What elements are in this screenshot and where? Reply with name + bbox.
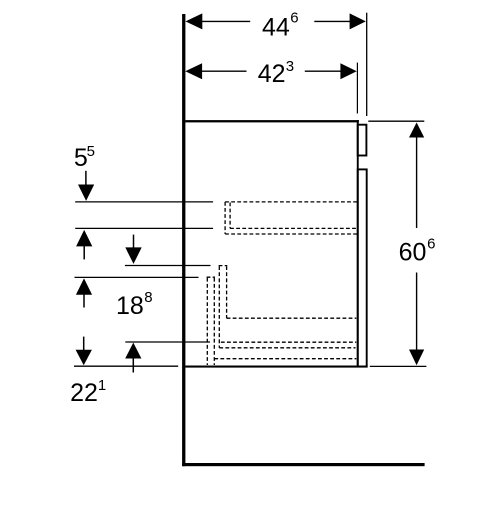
dashed drain pipe cap [207,276,215,278]
extension line 42.3 [356,63,358,114]
dimension 5.5 upper arrowhead [78,185,94,201]
dashed top drawer: top line [225,201,357,203]
dimension 60.6 bottom arrowhead [409,350,424,366]
svg-text:6: 6 [427,235,435,252]
dimension 60.6 lower stem [416,273,418,351]
dashed drain pipe right wall [213,278,215,365]
reference line L5 drawer bottom [125,341,210,343]
dimension 44.6 line right segment [314,20,350,22]
svg-text:6: 6 [290,9,298,26]
svg-text:42: 42 [258,60,286,88]
dimension 18.8 lower arrowhead [125,343,141,359]
dashed siphon right wall [226,266,228,318]
extension line 44.6 [366,13,368,116]
dimension 44.6 line left segment [201,20,250,22]
dimension 18.8 upper arrowhead [125,247,141,264]
dimension 60.6 upper stem [416,137,418,229]
dimension 42.3 left arrowhead [185,63,202,79]
cabinet top panel [185,120,359,122]
dashed top drawer: left inner wall [229,203,231,229]
dashed siphon left wall [218,266,220,348]
reference line L2 drawer inner bottom [75,227,213,229]
dimension 22.1 upper arrowhead [76,278,92,294]
svg-text:8: 8 [144,289,152,306]
svg-text:1: 1 [98,377,106,394]
svg-text:44: 44 [262,14,290,42]
reference line L1 drawer top [75,201,213,203]
dashed top drawer: inner bottom [230,227,357,229]
dimension 44.6 left arrowhead [186,13,203,29]
reference line L4 pipe top [75,276,199,278]
door front panel [358,169,367,366]
dimension 22.1 upper arrow stem [83,294,85,307]
dashed siphon cap [219,265,228,267]
cabinet carcass front edge [357,120,359,367]
dimension 18.8 lower arrow stem [132,358,134,373]
dimension 42.3 line right segment [305,70,342,72]
reference line 60.6 top [368,120,424,122]
reference line L3 siphon top [125,265,211,267]
dimension 42.3 right arrowhead [340,63,356,79]
dashed drawer outer bottom [214,358,356,360]
reference line L6 cabinet bottom [74,365,178,367]
dimension 60.6 top arrowhead [409,123,424,138]
svg-text:18: 18 [116,292,144,320]
svg-text:60: 60 [399,238,427,266]
top drawer front tab [358,125,367,156]
floor [182,463,424,466]
svg-text:22: 22 [70,379,98,407]
svg-text:5: 5 [87,143,95,160]
dimension 42.3 line left segment [201,70,247,72]
dimension 18.8 upper arrow stem [133,235,135,248]
wall [182,14,185,466]
svg-text:3: 3 [286,58,294,75]
dimension 5.5 lower arrow stem [83,246,85,259]
dimension 22.1 lower arrow stem [83,337,85,351]
dashed top drawer: left outer wall [224,202,226,234]
dimension 22.1 lower arrowhead [76,350,92,366]
cabinet bottom panel [185,366,367,368]
dimension 5.5 lower arrowhead [76,230,92,247]
dashed drawer inner bottom [221,341,356,343]
dimension 44.6 right arrowhead [350,13,366,29]
dashed top drawer: outer bottom [225,233,357,235]
dashed drawer cutout shelf [227,317,357,319]
reference line 60.6 bottom [370,365,427,367]
dashed drawer bottom panel [219,347,355,349]
dimension 5.5 upper arrow stem [85,171,87,185]
dashed drain pipe left wall [206,278,208,365]
